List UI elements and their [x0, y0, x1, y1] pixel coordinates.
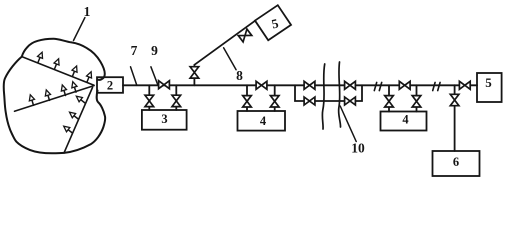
river bank line 1: [322, 64, 324, 129]
branch pipe to box 4a (left): [246, 85, 248, 111]
valve on branch to box 4a right: [270, 96, 279, 107]
box 5 (right): [477, 73, 502, 102]
well arrow c2: [68, 110, 80, 121]
box 4a: [238, 111, 286, 131]
leader line to label 8: [224, 48, 237, 70]
box 5 (top, tilted): [255, 5, 291, 40]
river crossing bypass loop: [295, 85, 362, 101]
svg-text:5: 5: [270, 15, 280, 31]
river bank line 2: [339, 62, 341, 127]
well arrow a3: [70, 65, 79, 77]
diagonal pipeline to plant 5: [194, 21, 255, 65]
svg-text:4: 4: [402, 113, 409, 127]
valve on branch to box 3 right: [172, 95, 181, 106]
box 4b: [381, 112, 427, 131]
well arrow b3: [60, 84, 68, 96]
well arrow b2: [44, 89, 52, 101]
svg-text:10: 10: [351, 141, 365, 156]
branch pipe to box 4b (left): [388, 85, 390, 111]
valve before box 5 right: [459, 81, 470, 89]
well arrow a2: [52, 58, 61, 70]
leader line to label 7: [131, 67, 137, 86]
branch pipe to box 3 (right): [175, 85, 177, 110]
valve on branch to box 3 left: [145, 95, 154, 106]
gas field outline (item 1): [4, 39, 106, 154]
pipeline to box 5 right: [455, 84, 477, 86]
well arrow b4: [70, 81, 78, 93]
valve river upper-right: [345, 81, 356, 89]
branch pipe to box 3 (left): [148, 85, 150, 110]
well arrow c3: [62, 124, 74, 135]
valve on branch to box 4b left: [385, 96, 394, 107]
valve on main line before box 4b: [399, 81, 410, 89]
pipeline break mark 2: [433, 82, 440, 90]
well arrow a1: [35, 51, 44, 63]
svg-text:4: 4: [260, 114, 267, 128]
valve river upper-left: [304, 81, 315, 89]
field sector line (lower chord): [64, 88, 93, 153]
valve on diagonal pipeline: [238, 29, 251, 42]
valve 9 on main line: [159, 81, 170, 89]
leader line to label 9: [151, 67, 158, 84]
field sector line (middle chord): [15, 86, 95, 112]
branch pipe to box 4b (right): [416, 85, 418, 111]
well arrow a4: [84, 71, 93, 83]
main pipeline: [123, 84, 455, 86]
svg-text:8: 8: [236, 68, 243, 83]
pipeline break mark 1: [374, 82, 381, 90]
box 3: [142, 110, 187, 130]
well arrow c1: [75, 94, 87, 105]
valve on main line after junction: [256, 81, 267, 89]
valve river lower-left: [304, 97, 315, 105]
svg-text:7: 7: [131, 43, 138, 58]
leader line to label 10: [340, 106, 356, 142]
branch pipe down to box 6: [454, 85, 456, 151]
valve river lower-right: [345, 97, 356, 105]
svg-text:3: 3: [161, 112, 167, 126]
riser pipe to condensate line: [193, 65, 195, 86]
svg-text:5: 5: [485, 75, 492, 90]
box 2 (field collection point): [97, 77, 123, 93]
svg-text:2: 2: [107, 79, 113, 93]
valve on riser: [190, 67, 199, 78]
svg-text:6: 6: [453, 155, 459, 169]
branch pipe to box 4a (right): [274, 85, 276, 111]
valve on branch to box 6: [450, 94, 459, 105]
svg-text:1: 1: [84, 4, 91, 19]
valve on branch to box 4a left: [243, 96, 252, 107]
svg-text:9: 9: [151, 43, 158, 58]
well arrow b1: [28, 94, 36, 106]
box 6: [433, 151, 480, 176]
field sector line (upper chord): [22, 57, 94, 86]
valve on branch to box 4b right: [412, 96, 421, 107]
leader line to label 1: [74, 18, 85, 41]
